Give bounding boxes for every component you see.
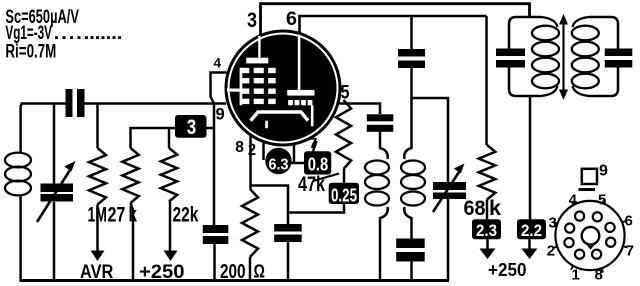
- test point box 3: [175, 115, 207, 139]
- IF2 right frame: [589, 17, 618, 96]
- svg-text:2.2: 2.2: [521, 221, 542, 240]
- grid resistor 1M: [89, 104, 106, 252]
- svg-text:1: 1: [572, 267, 580, 284]
- svg-text:47k: 47k: [298, 173, 325, 196]
- arrow 2.2 down: [522, 239, 538, 259]
- svg-text:5: 5: [598, 191, 606, 208]
- svg-text:7: 7: [309, 135, 317, 152]
- svg-text:22k: 22k: [173, 204, 199, 227]
- wire grid pin 4: [211, 73, 227, 104]
- IF2 left capacitor: [496, 49, 525, 68]
- wire box3 to divider: [131, 128, 176, 148]
- svg-text:Ri=0.7M: Ri=0.7M: [5, 41, 56, 62]
- svg-text:k: k: [129, 204, 138, 227]
- IF2 primary winding: [532, 17, 559, 96]
- IF1 secondary winding: [401, 161, 425, 206]
- label socket 9: [599, 163, 608, 180]
- svg-text:68: 68: [464, 197, 486, 220]
- decoupling capacitor pin9: [203, 225, 229, 244]
- heater voltage circle 6.3: [265, 148, 291, 174]
- svg-text:2: 2: [248, 140, 256, 159]
- wire IF2 primary to 2.2 box: [529, 96, 532, 219]
- wire trimmer to bus: [447, 199, 450, 281]
- wire screen drop: [410, 16, 413, 49]
- cathode resistor 200 ohm: [242, 189, 258, 281]
- svg-text:+250: +250: [488, 260, 527, 280]
- svg-text:3: 3: [187, 116, 196, 139]
- svg-text:6: 6: [286, 9, 297, 30]
- svg-text:0.25: 0.25: [331, 184, 357, 205]
- cathode bypass capacitor: [274, 224, 302, 242]
- label 22k: [173, 204, 199, 227]
- svg-text:4: 4: [214, 56, 222, 71]
- label pin 2: [248, 140, 256, 159]
- wire tuning branch: [53, 104, 56, 281]
- tube envelope: [226, 31, 340, 145]
- ground bus: [20, 279, 450, 282]
- svg-text:8: 8: [595, 267, 603, 284]
- svg-text:4: 4: [569, 191, 578, 208]
- IF2 left frame: [509, 17, 541, 96]
- IF2 secondary winding: [572, 17, 599, 96]
- socket center key: [582, 227, 600, 248]
- label 200 ohm: [220, 261, 265, 283]
- label pin 8: [235, 139, 244, 156]
- label +250 right: [488, 260, 527, 280]
- wire 6.3 to 0.8 box: [292, 162, 305, 165]
- wire pin 5: [337, 104, 380, 115]
- 47k leader line: [313, 174, 339, 182]
- screen capacitor: [398, 49, 425, 68]
- resistor 22k: [161, 148, 177, 251]
- wire cathode tee: [251, 186, 289, 225]
- tube electrodes: [227, 35, 315, 128]
- wire secondary top to trimmer: [412, 98, 449, 182]
- label 68k: [464, 197, 502, 220]
- wire primary to bus: [380, 207, 388, 281]
- tube cathode: [251, 112, 308, 121]
- IF2 core arrow: [559, 14, 568, 100]
- svg-text:0.8: 0.8: [308, 155, 329, 175]
- svg-text:6: 6: [625, 213, 633, 230]
- svg-text:9: 9: [216, 106, 225, 124]
- wire bottom cap to bus: [410, 262, 413, 281]
- wire secondary to bottom cap: [404, 207, 411, 239]
- wire pin 9 branch: [213, 104, 216, 281]
- wire top bus: [21, 102, 226, 105]
- label AVR: [80, 262, 114, 283]
- label pin 3: [247, 9, 257, 32]
- arrow to +250 left: [164, 251, 178, 262]
- socket pin ticks: [553, 199, 628, 273]
- IF2 right capacitor: [605, 49, 633, 68]
- svg-text:1M: 1M: [88, 204, 108, 227]
- test point box 0.8: [304, 151, 331, 174]
- wire tube to heater stubs: [264, 142, 295, 163]
- wire 0.25 to bypass branch: [288, 204, 344, 213]
- tuning capacitor plates: [41, 184, 74, 202]
- wire box3 to pin9 line: [207, 127, 215, 130]
- label +250 left: [139, 262, 185, 283]
- test point box 2.2: [517, 219, 546, 240]
- arrow to AVR: [91, 251, 105, 262]
- socket top cap square: [579, 169, 598, 191]
- tube data line Sc=650uA/V: [5, 7, 79, 28]
- IF1 bottom capacitor: [396, 239, 425, 262]
- wire cathode pins 8/2: [249, 134, 252, 189]
- wire anode pin 3: [261, 4, 530, 36]
- socket circle: [555, 201, 624, 270]
- label pin 4: [214, 56, 222, 71]
- tuning capacitor arrow: [37, 161, 76, 222]
- svg-text:7: 7: [626, 243, 634, 260]
- arrow 2.3 to +250: [480, 239, 496, 259]
- svg-text:9: 9: [599, 163, 608, 180]
- label pin 9: [216, 106, 225, 124]
- svg-text:6.3: 6.3: [269, 157, 289, 174]
- label 27k: [108, 204, 138, 227]
- tube data line Ri=0.7M: [5, 41, 56, 62]
- label 1M: [88, 204, 108, 227]
- wire screen pin 6: [300, 16, 487, 33]
- wire left branch: [21, 104, 22, 281]
- wire screen cap to secondary: [404, 68, 411, 159]
- antenna coil: [5, 153, 31, 196]
- svg-text:8: 8: [235, 139, 244, 156]
- test point box 0.25: [329, 183, 359, 206]
- svg-text:3: 3: [549, 214, 557, 231]
- label pin 5: [341, 83, 350, 104]
- svg-text:3: 3: [247, 9, 257, 32]
- socket pin numbers: [547, 191, 634, 283]
- svg-text:27: 27: [108, 204, 126, 227]
- test point box 2.3: [472, 219, 501, 240]
- wire pin 7: [313, 141, 317, 151]
- series capacitor to IF1: [367, 114, 394, 132]
- label pin 6: [286, 9, 297, 30]
- svg-text:2: 2: [547, 243, 555, 260]
- label 47k: [298, 173, 325, 196]
- svg-text:k: k: [489, 197, 501, 220]
- tube data line Vg1=-3V: [5, 23, 121, 44]
- trimmer capacitor plates: [433, 182, 466, 199]
- label pin 7: [309, 135, 317, 152]
- coupling capacitor: [66, 89, 85, 117]
- socket pin holes: [564, 212, 615, 259]
- IF1 primary winding: [365, 161, 389, 206]
- resistor 27k: [122, 148, 138, 281]
- resistor 47k: [336, 100, 351, 183]
- resistor 68k: [479, 16, 496, 219]
- wire bypass cap to bus: [287, 242, 290, 281]
- trimmer arrow: [433, 164, 465, 213]
- svg-text:2.3: 2.3: [476, 221, 497, 240]
- wire cap to primary: [380, 132, 388, 160]
